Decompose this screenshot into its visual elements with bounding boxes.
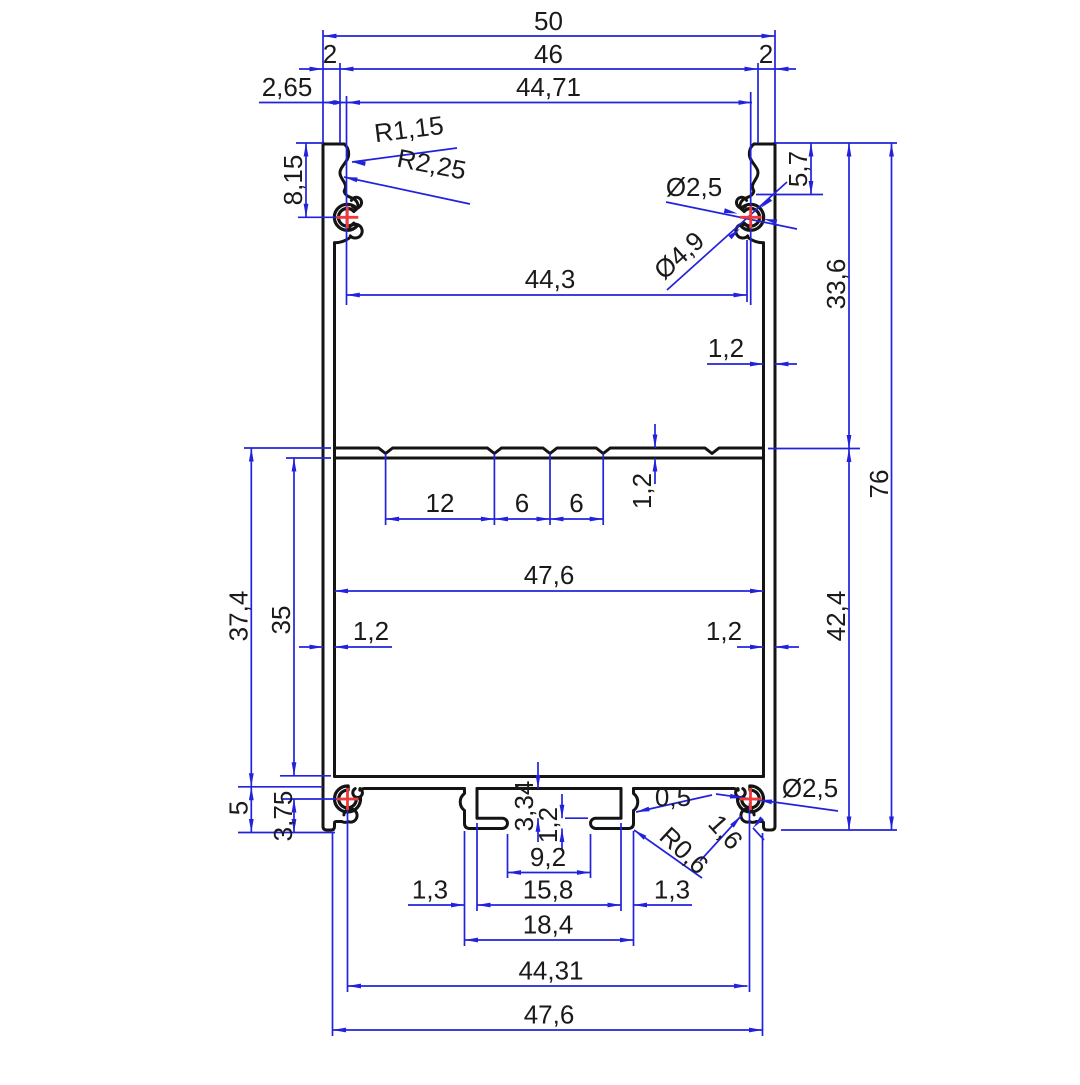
svg-text:6: 6 [569,488,583,518]
svg-text:1,2: 1,2 [708,333,744,363]
svg-text:2: 2 [759,39,773,69]
svg-text:44,3: 44,3 [525,264,576,294]
svg-text:47,6: 47,6 [524,1000,575,1030]
svg-text:1,3: 1,3 [412,875,448,905]
svg-text:33,6: 33,6 [821,259,851,310]
svg-text:12: 12 [426,488,455,518]
svg-text:3,75: 3,75 [268,791,298,842]
svg-text:1,2: 1,2 [627,473,657,509]
svg-text:6: 6 [515,488,529,518]
svg-text:50: 50 [534,6,563,36]
svg-text:Ø2,5: Ø2,5 [666,172,722,202]
svg-text:1,2: 1,2 [533,807,563,843]
svg-text:1,2: 1,2 [706,616,742,646]
svg-text:5,7: 5,7 [783,151,813,187]
svg-text:46: 46 [534,39,563,69]
svg-text:15,8: 15,8 [523,875,574,905]
svg-text:5: 5 [224,801,254,815]
svg-text:18,4: 18,4 [523,910,574,940]
svg-text:2,65: 2,65 [262,72,313,102]
svg-text:76: 76 [864,470,894,499]
svg-text:44,31: 44,31 [518,956,583,986]
svg-text:1,2: 1,2 [353,616,389,646]
svg-text:8,15: 8,15 [278,155,308,206]
svg-text:0,5: 0,5 [655,782,691,812]
svg-text:9,2: 9,2 [530,842,566,872]
svg-text:44,71: 44,71 [516,72,581,102]
svg-text:2: 2 [323,39,337,69]
svg-text:42,4: 42,4 [821,591,851,642]
svg-text:Ø2,5: Ø2,5 [782,773,838,803]
svg-text:1,3: 1,3 [654,875,690,905]
svg-text:37,4: 37,4 [224,591,254,642]
svg-text:47,6: 47,6 [524,560,575,590]
svg-text:35: 35 [266,606,296,635]
